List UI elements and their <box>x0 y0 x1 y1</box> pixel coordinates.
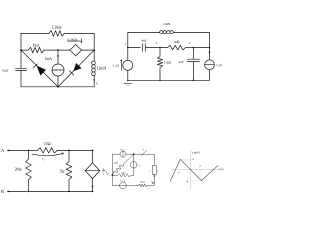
resistor 5 Ohm <box>66 150 72 191</box>
svg-text:0: 0 <box>122 181 123 183</box>
ground stub <box>124 83 132 85</box>
y axis <box>190 150 192 189</box>
svg-text:12mH: 12mH <box>97 67 107 71</box>
wire top left <box>112 153 120 155</box>
inductor 1mH <box>160 31 174 33</box>
svg-text:1kΩ: 1kΩ <box>173 40 180 44</box>
svg-text:B: B <box>1 189 4 194</box>
svg-text:(t): (t) <box>219 63 222 67</box>
row2 wire node3 to right <box>193 47 209 49</box>
resistor 1kOhm vertical at node 2 <box>157 48 162 81</box>
svg-text:1kΩ: 1kΩ <box>165 61 171 65</box>
wire top left segment <box>128 32 160 34</box>
element box L <box>153 165 157 174</box>
svg-text:v (mV): v (mV) <box>192 152 200 155</box>
left vertical wire <box>111 154 113 185</box>
x axis <box>172 169 220 171</box>
capacitor 4nF <box>142 44 144 52</box>
guide trough <box>191 180 202 182</box>
wire left vertical to node 1 <box>127 33 129 61</box>
right vertical upper <box>153 154 155 165</box>
svg-text:a: a <box>109 175 110 177</box>
svg-text:1kΩ: 1kΩ <box>121 171 125 174</box>
svg-text:4nF: 4nF <box>141 39 146 43</box>
switch t0 <box>141 150 146 156</box>
svg-text:2kΩ: 2kΩ <box>114 161 118 164</box>
svg-text:2: 2 <box>97 84 98 86</box>
wire mid-row left stub <box>21 49 28 51</box>
node R <box>93 49 95 51</box>
svg-text:1mH: 1mH <box>163 22 170 26</box>
wire top to diamond column <box>57 149 92 151</box>
wire bottom <box>21 86 94 88</box>
arrow below box <box>154 176 156 178</box>
node M <box>57 49 59 51</box>
diode D2 diagonal right <box>58 50 94 87</box>
source S3 on bottom wire <box>112 184 119 186</box>
wire right vertical upper <box>209 33 211 60</box>
voltage source v2 circle <box>205 60 215 70</box>
resistor 1kOhm internal row <box>112 174 133 177</box>
current arrow i2 <box>93 80 95 84</box>
wire bottom <box>8 190 93 192</box>
wire top-left segment <box>21 32 49 34</box>
wire to bottom right corner <box>147 184 154 186</box>
svg-text:1mA: 1mA <box>45 57 53 61</box>
resistor 10 Ohm <box>37 148 57 153</box>
node va dot <box>112 174 114 176</box>
arrow v1 <box>120 60 122 70</box>
wire S1 to node M4 <box>126 153 139 155</box>
current source S1 <box>120 151 126 157</box>
node L <box>20 49 22 51</box>
svg-text:t (s): t (s) <box>219 168 223 171</box>
wire diamond to right node <box>82 49 95 51</box>
capacitor 2nF at node 3 <box>192 48 194 60</box>
wire mid-row to node M <box>44 49 70 51</box>
voltage source v1 circle <box>123 60 133 70</box>
capacitor 10uF <box>16 67 27 69</box>
diode D1 diagonal left <box>21 50 58 87</box>
resistor 2.2kOhm <box>49 31 64 37</box>
wire S3 to resistor <box>126 184 138 186</box>
vx arc arrow <box>32 153 63 155</box>
svg-text:0: 0 <box>143 149 144 151</box>
corner current mark <box>151 181 153 183</box>
wire left vertical lower <box>20 71 22 87</box>
svg-text:10Ω: 10Ω <box>44 142 51 146</box>
svg-text:2nF: 2nF <box>179 60 184 64</box>
resistor 1kOhm horizontal <box>160 45 193 49</box>
dependent source diamond 3/5 vx <box>92 150 94 162</box>
resistor 1kOhm <box>28 47 44 53</box>
resistor 20 Ohm <box>26 150 32 191</box>
svg-text:10µF: 10µF <box>2 68 9 72</box>
wire bottom <box>128 79 210 81</box>
source S2 branch <box>133 154 135 161</box>
wire top-right segment <box>64 32 94 34</box>
svg-text:20Ω: 20Ω <box>15 168 22 172</box>
row2 wire cap to node2 <box>145 47 160 49</box>
svg-text:(t): (t) <box>116 64 119 68</box>
svg-text:2kΩ: 2kΩ <box>140 181 144 184</box>
svg-text:5mA: 5mA <box>120 148 125 151</box>
diagonal resistor 2kOhm <box>112 154 133 175</box>
inductor 12mH <box>92 61 95 76</box>
row2 wire node1 to cap <box>128 47 141 49</box>
resistor 2kOhm bottom <box>139 184 148 187</box>
wire top right segment <box>174 32 210 34</box>
wire right vertical upper <box>93 33 95 61</box>
node dots <box>28 150 30 152</box>
wire left vertical upper <box>20 33 22 68</box>
wire source to bottom <box>127 70 129 80</box>
current source 1mA branch wire <box>57 50 59 64</box>
wire top left <box>8 149 38 151</box>
svg-text:1: 1 <box>140 166 141 168</box>
wire source to bottom node <box>57 76 59 87</box>
arrow down beside label <box>81 39 83 43</box>
waveform <box>170 159 218 181</box>
wire right vertical lower <box>93 76 95 87</box>
svg-text:2.2kΩ: 2.2kΩ <box>51 25 61 30</box>
node B <box>57 86 59 88</box>
guide peak <box>180 158 191 160</box>
arrow below diamond <box>92 186 94 188</box>
right vertical lower <box>153 175 155 186</box>
svg-text:1kΩ: 1kΩ <box>33 44 40 48</box>
arrow up above source v2 <box>209 51 211 53</box>
node dots <box>127 47 129 49</box>
node M4 dot <box>133 153 135 155</box>
svg-text:5Ω: 5Ω <box>60 170 65 174</box>
branch arrow down <box>57 56 59 58</box>
wire right vertical lower <box>209 70 211 81</box>
dependent source diamond 0.3kOhm i2 <box>70 45 82 56</box>
current source 1mA circle <box>52 64 64 76</box>
